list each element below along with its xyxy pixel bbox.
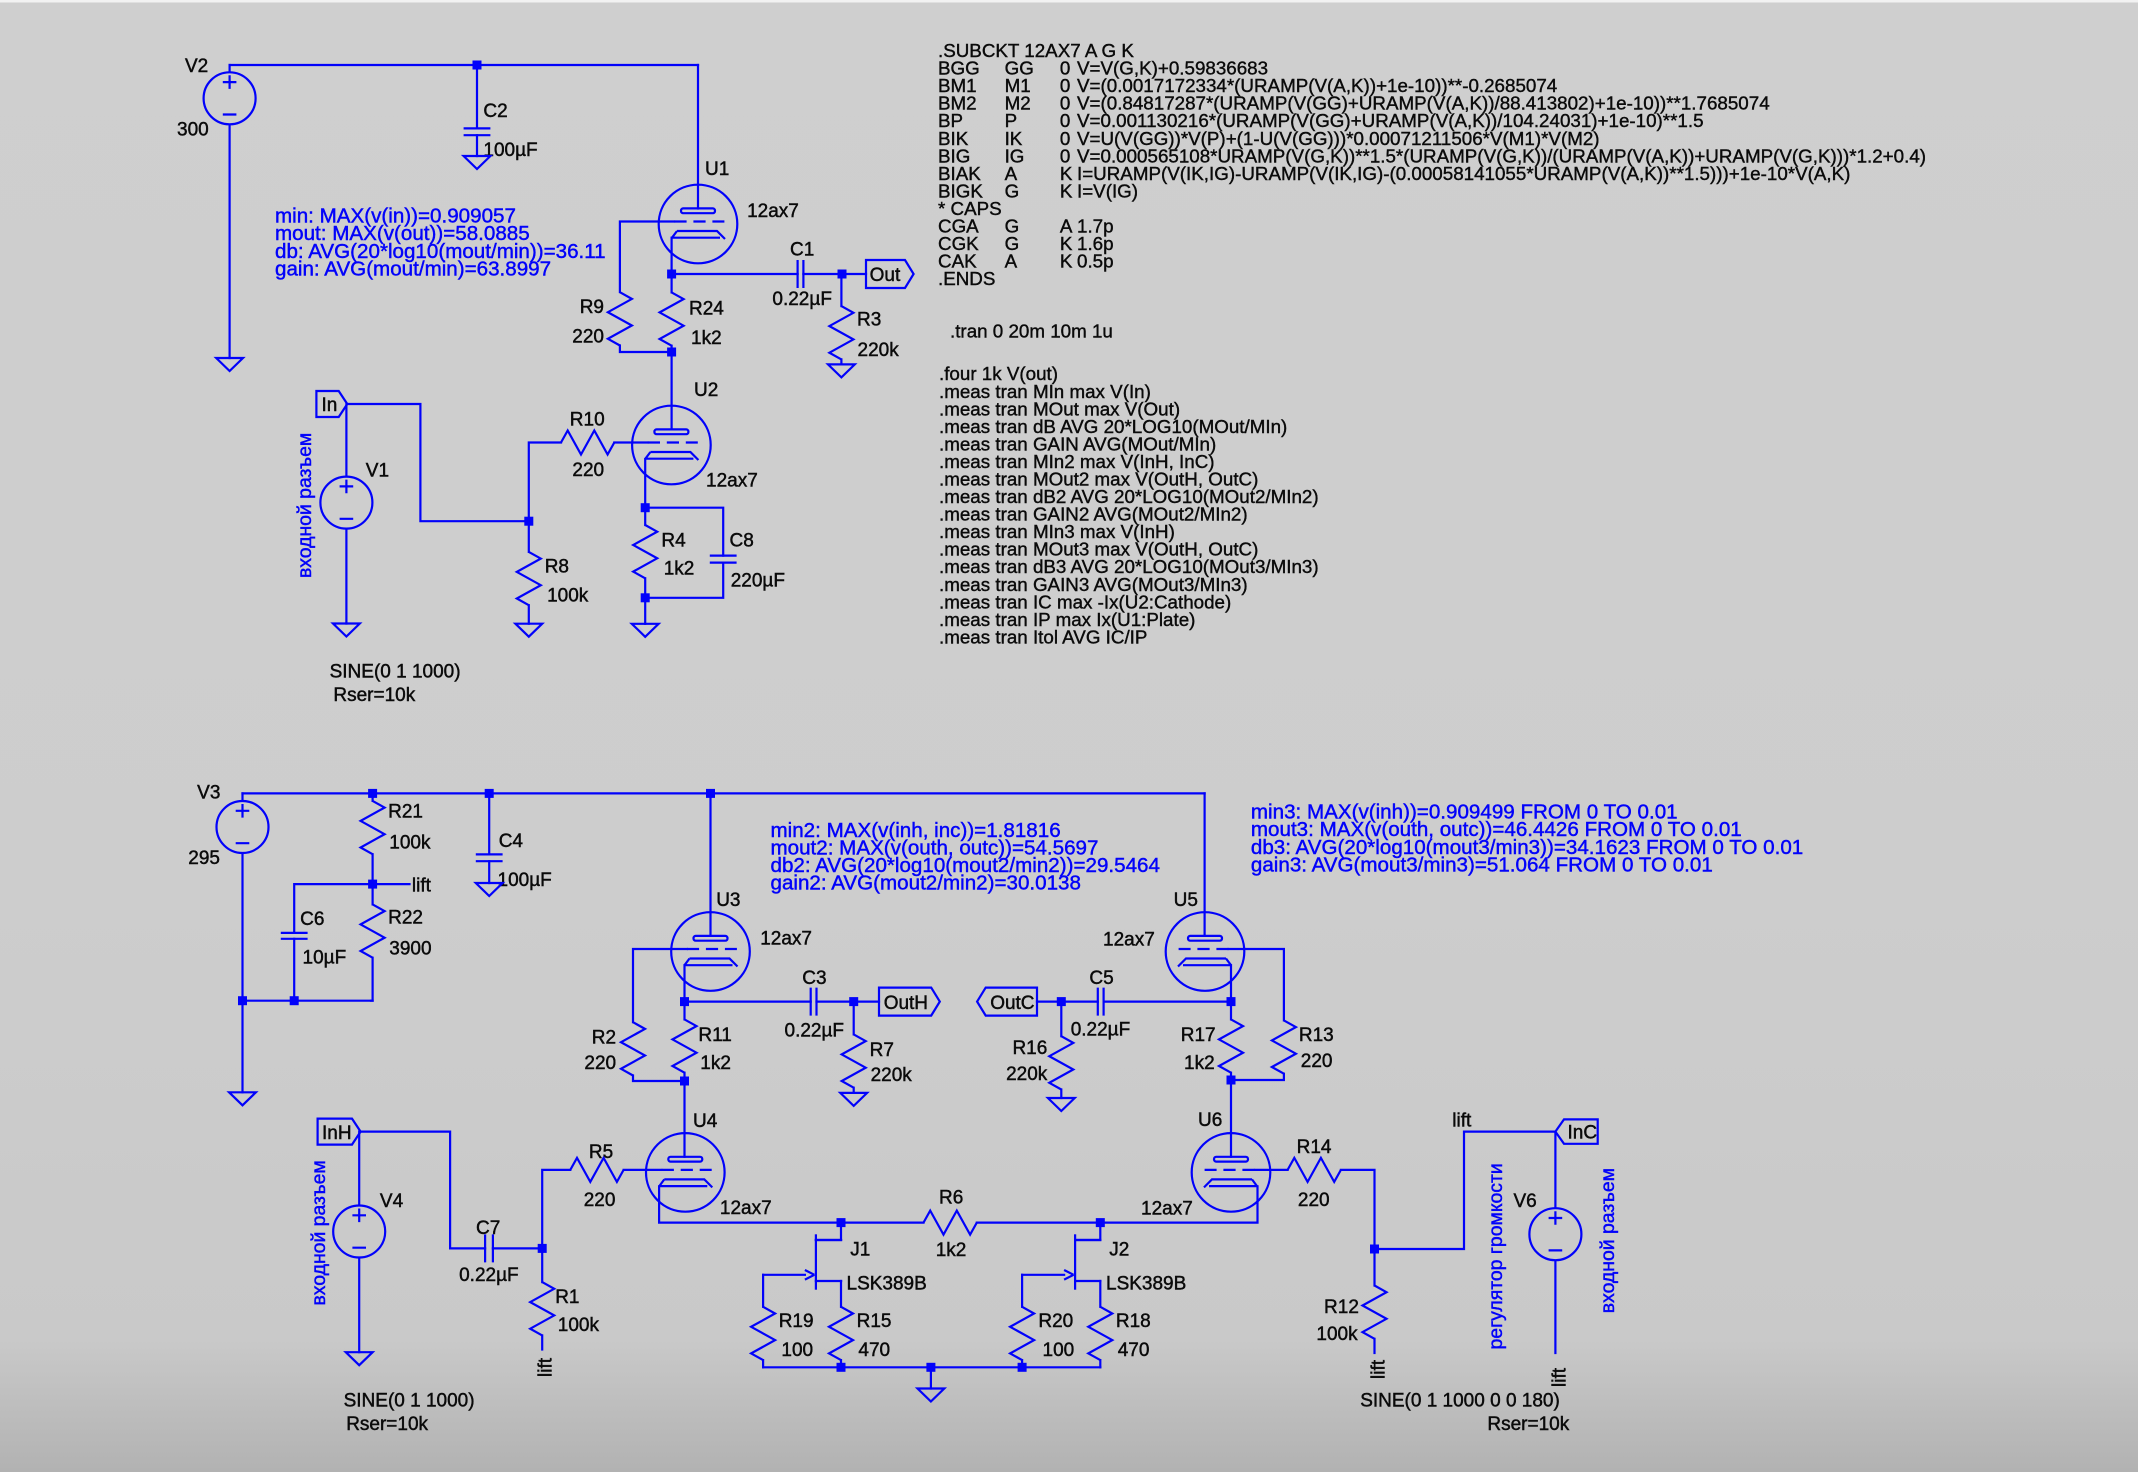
resistor R7 220k xyxy=(842,1002,913,1093)
wire node up to R10 xyxy=(529,443,561,522)
svg-text:C4: C4 xyxy=(499,831,524,852)
svg-text:InH: InH xyxy=(322,1123,352,1144)
wire node up to R5 xyxy=(542,1170,570,1249)
svg-text:U6: U6 xyxy=(1198,1110,1222,1131)
svg-text:входной разъем: входной разъем xyxy=(1597,1168,1619,1313)
svg-text:V3: V3 xyxy=(197,783,220,804)
svg-text:220k: 220k xyxy=(871,1065,913,1086)
wire U5 cathode to node xyxy=(1230,965,1232,1001)
svg-text:R5: R5 xyxy=(589,1142,613,1163)
port flag In xyxy=(316,391,347,417)
svg-text:1k2: 1k2 xyxy=(936,1240,967,1261)
svg-text:InC: InC xyxy=(1568,1123,1598,1144)
wire U6 cathode bus xyxy=(1100,1186,1257,1222)
wire node to U6 plate xyxy=(1230,1080,1232,1157)
svg-text:U2: U2 xyxy=(694,380,718,401)
text measurement results block 1 xyxy=(275,204,606,280)
wire R13 bottom to node xyxy=(1231,1074,1284,1080)
svg-text:gain: AVG(mout/min)=63.8997: gain: AVG(mout/min)=63.8997 xyxy=(275,258,551,281)
svg-text:470: 470 xyxy=(858,1340,890,1361)
port flag Out xyxy=(866,260,914,288)
port flag OutH xyxy=(879,988,940,1016)
wire node to U2 plate xyxy=(670,352,672,429)
resistor R10 220 xyxy=(561,410,614,481)
svg-text:12ax7: 12ax7 xyxy=(720,1198,772,1219)
wire V6 to lift label xyxy=(1554,1261,1556,1353)
resistor R8 100k xyxy=(517,521,589,624)
svg-text:R7: R7 xyxy=(870,1040,894,1061)
wire to V3 ground xyxy=(241,1001,243,1093)
svg-text:R15: R15 xyxy=(857,1311,892,1332)
capacitor C4 100uF xyxy=(476,793,552,891)
port flag InH xyxy=(318,1119,361,1145)
ground R16 xyxy=(1048,1098,1075,1111)
wire V4 to ground xyxy=(358,1258,360,1352)
svg-text:100µF: 100µF xyxy=(498,870,552,891)
capacitor C8 220uF xyxy=(645,508,785,598)
svg-text:0.22µF: 0.22µF xyxy=(772,289,832,310)
triode U3 12ax7 xyxy=(671,890,812,991)
svg-text:300: 300 xyxy=(177,119,209,140)
svg-text:LSK389B: LSK389B xyxy=(1106,1274,1186,1295)
voltage source V4 xyxy=(333,1191,474,1435)
triode U4 12ax7 xyxy=(646,1111,772,1219)
junction U2 cathode/R4/C8 xyxy=(641,503,650,512)
svg-text:lift: lift xyxy=(536,1357,557,1377)
svg-text:R9: R9 xyxy=(580,297,604,318)
wire R10 to U2 grid xyxy=(614,441,647,443)
resistor R9 220 xyxy=(572,292,632,348)
junction C2/rail xyxy=(473,61,482,70)
svg-text:R21: R21 xyxy=(388,802,423,823)
svg-text:1k2: 1k2 xyxy=(700,1053,731,1074)
resistor R15 470 xyxy=(829,1307,891,1368)
svg-text:входной разъем: входной разъем xyxy=(308,1160,330,1305)
svg-text:.ENDS: .ENDS xyxy=(938,268,995,289)
svg-text:R3: R3 xyxy=(857,310,881,331)
svg-text:1k2: 1k2 xyxy=(691,328,722,349)
svg-text:220: 220 xyxy=(584,1053,616,1074)
capacitor C2 xyxy=(464,65,538,161)
resistor R21 100k xyxy=(361,793,431,884)
svg-text:R4: R4 xyxy=(661,530,686,551)
junction V3/C6 return xyxy=(238,996,247,1005)
ground V3 xyxy=(229,1092,256,1105)
wire C7 to node xyxy=(493,1247,542,1249)
triode U2 12ax7 xyxy=(632,380,758,492)
svg-text:0.22µF: 0.22µF xyxy=(459,1265,519,1286)
ground R8 xyxy=(515,624,542,637)
junction R14/R12/lift net xyxy=(1370,1245,1379,1254)
svg-text:100: 100 xyxy=(781,1340,813,1361)
ground R3 xyxy=(828,364,855,377)
svg-text:10µF: 10µF xyxy=(303,947,347,968)
wire U1 cathode to node xyxy=(670,238,672,274)
junction J2 drain/R6 xyxy=(1096,1218,1105,1227)
svg-text:V1: V1 xyxy=(366,460,389,481)
text .SUBCKT 12AX7 model block xyxy=(938,40,1926,289)
svg-text:SINE(0 1 1000): SINE(0 1 1000) xyxy=(330,662,461,683)
junction U3 plate/rail xyxy=(706,789,715,798)
capacitor C5 0.22uF xyxy=(1071,968,1131,1041)
resistor R6 1k2 xyxy=(841,1188,1100,1261)
svg-text:C2: C2 xyxy=(483,101,507,122)
svg-text:470: 470 xyxy=(1118,1340,1150,1361)
svg-text:100: 100 xyxy=(1043,1340,1075,1361)
svg-text:0.22µF: 0.22µF xyxy=(1071,1020,1131,1041)
wire C5 to OutC port xyxy=(1037,1000,1098,1002)
wire C3 to OutH port xyxy=(817,1000,880,1002)
resistor R12 100k xyxy=(1316,1249,1386,1353)
wire rail to ground xyxy=(930,1367,932,1388)
svg-text:100k: 100k xyxy=(1316,1324,1358,1345)
svg-text:U5: U5 xyxy=(1174,890,1198,911)
svg-text:OutC: OutC xyxy=(990,993,1034,1014)
resistor R18 470 xyxy=(1088,1307,1150,1368)
wire out net to C1 xyxy=(672,273,798,275)
ground C2 xyxy=(464,156,491,169)
svg-text:100k: 100k xyxy=(547,585,589,606)
svg-text:1k2: 1k2 xyxy=(664,559,695,580)
svg-text:lift: lift xyxy=(412,875,432,896)
wire rail to U3 plate xyxy=(709,793,711,936)
wire source return rail xyxy=(763,1366,1100,1368)
resistor R2 220 xyxy=(584,1022,645,1075)
JFET J2 LSK389B xyxy=(1064,1223,1186,1307)
svg-text:OutH: OutH xyxy=(884,993,928,1014)
wire U1 grid to R9 xyxy=(620,222,674,293)
wire V3 to bottom node xyxy=(241,854,243,1001)
svg-text:U1: U1 xyxy=(705,159,729,180)
svg-text:Rser=10k: Rser=10k xyxy=(346,1414,428,1435)
svg-text:SINE(0 1 1000 0 0 180): SINE(0 1 1000 0 0 180) xyxy=(1360,1391,1560,1412)
svg-text:LSK389B: LSK389B xyxy=(847,1274,927,1295)
ground R4 xyxy=(632,624,659,637)
junction R24/R9/U2 plate xyxy=(667,348,676,357)
svg-text:100k: 100k xyxy=(389,833,431,854)
junction R17/R13/U6 plate xyxy=(1227,1076,1236,1085)
svg-text:220: 220 xyxy=(1298,1190,1330,1211)
wire V1 to ground xyxy=(345,529,347,623)
svg-text:220µF: 220µF xyxy=(731,571,785,592)
junction R3/out xyxy=(838,270,847,279)
svg-text:R10: R10 xyxy=(570,410,605,431)
svg-text:lift: lift xyxy=(1549,1367,1570,1387)
wire InH net to C7 xyxy=(361,1132,485,1249)
svg-text:0.22µF: 0.22µF xyxy=(785,1020,845,1041)
resistor R20 100 xyxy=(1010,1275,1074,1368)
svg-text:R6: R6 xyxy=(939,1188,963,1209)
wire return bus xyxy=(243,1000,373,1002)
resistor R11 1k2 xyxy=(673,1002,732,1081)
ground source rail xyxy=(918,1389,945,1402)
resistor R14 220 xyxy=(1288,1137,1341,1211)
svg-text:R17: R17 xyxy=(1181,1025,1216,1046)
svg-text:12ax7: 12ax7 xyxy=(747,201,799,222)
resistor R17 1k2 xyxy=(1181,1002,1243,1080)
svg-text:lift: lift xyxy=(1369,1359,1390,1379)
svg-text:3900: 3900 xyxy=(389,938,431,959)
wire U6 grid to R14 xyxy=(1255,1169,1288,1171)
wire C1 to Out port xyxy=(803,273,866,275)
svg-text:295: 295 xyxy=(188,848,220,869)
junction U5 cathode/outC net xyxy=(1227,997,1236,1006)
wire node to U4 plate xyxy=(683,1081,685,1157)
junction In net/R8/R10 xyxy=(524,517,533,526)
junction U3 cathode/outH net xyxy=(680,997,689,1006)
svg-text:100µF: 100µF xyxy=(483,140,537,161)
triode U5 12ax7 xyxy=(1103,890,1244,991)
svg-text:R22: R22 xyxy=(388,907,423,928)
wire V2 to ground xyxy=(229,125,231,358)
svg-text:регулятор громкости: регулятор громкости xyxy=(1485,1163,1507,1349)
svg-text:220k: 220k xyxy=(1006,1064,1048,1085)
wire R9 bottom to node xyxy=(620,346,672,353)
svg-text:U3: U3 xyxy=(716,890,740,911)
svg-text:220k: 220k xyxy=(858,340,900,361)
svg-text:R2: R2 xyxy=(592,1028,616,1049)
svg-text:220: 220 xyxy=(572,460,604,481)
triode U1 12ax7 xyxy=(659,159,799,263)
triode U6 12ax7 xyxy=(1141,1110,1270,1220)
svg-text:входной разъем: входной разъем xyxy=(294,433,316,578)
svg-text:Rser=10k: Rser=10k xyxy=(333,685,415,706)
svg-text:R12: R12 xyxy=(1324,1297,1359,1318)
wire top rail V+ (300V) xyxy=(230,64,698,66)
wire InC port to V6 xyxy=(1554,1132,1556,1208)
ground V4 xyxy=(346,1352,373,1365)
wire bottom rail V+ (295V) xyxy=(243,792,1205,794)
svg-text:12ax7: 12ax7 xyxy=(1103,930,1155,951)
wire U5 grid to R13 xyxy=(1229,949,1284,1020)
JFET J1 LSK389B xyxy=(805,1223,927,1307)
capacitor C7 0.22uF xyxy=(459,1218,519,1286)
svg-text:C3: C3 xyxy=(802,968,826,989)
voltage source V6 xyxy=(1360,1191,1581,1435)
svg-text:C6: C6 xyxy=(300,909,324,930)
svg-text:12ax7: 12ax7 xyxy=(706,471,758,492)
voltage source V2 xyxy=(177,56,256,140)
svg-text:220: 220 xyxy=(584,1190,616,1211)
resistor R4 1k2 xyxy=(633,508,694,598)
wire node to ground xyxy=(644,598,646,624)
svg-text:gain3: AVG(mout3/min3)=51.064: gain3: AVG(mout3/min3)=51.064 FROM 0 TO … xyxy=(1251,853,1713,876)
svg-text:J2: J2 xyxy=(1109,1239,1129,1260)
svg-text:.tran 0 20m 10m 1u: .tran 0 20m 10m 1u xyxy=(950,320,1113,341)
svg-text:R13: R13 xyxy=(1299,1025,1334,1046)
text measurement results block 3 xyxy=(1251,801,1803,877)
svg-text:R18: R18 xyxy=(1116,1311,1151,1332)
svg-text:R20: R20 xyxy=(1038,1311,1073,1332)
window top edge xyxy=(0,0,2138,3)
svg-text:220: 220 xyxy=(572,327,604,348)
wire U4 cathode bus xyxy=(659,1186,841,1222)
junction lift node xyxy=(368,880,377,889)
junction R21/rail xyxy=(368,789,377,798)
svg-text:SINE(0 1 1000): SINE(0 1 1000) xyxy=(344,1391,475,1412)
wire In net to R8/R10 node xyxy=(347,404,529,521)
wire U2 cathode to node xyxy=(644,459,646,508)
ground C4 xyxy=(476,883,503,896)
junction R16/outC xyxy=(1057,997,1066,1006)
svg-text:Out: Out xyxy=(870,265,901,286)
svg-text:lift: lift xyxy=(1452,1111,1472,1132)
resistor R19 100 xyxy=(751,1275,813,1368)
text measurement results block 2 xyxy=(771,819,1160,895)
svg-text:C7: C7 xyxy=(476,1218,500,1239)
wire In port to V1 xyxy=(345,404,347,476)
svg-text:V4: V4 xyxy=(380,1191,404,1212)
resistor R16 220k xyxy=(1006,1002,1073,1098)
text .four/.meas directives block xyxy=(939,363,1319,647)
svg-text:100k: 100k xyxy=(558,1315,600,1336)
svg-text:12ax7: 12ax7 xyxy=(760,929,812,950)
junction R4/C8 bottom xyxy=(641,593,650,602)
junction U1 cathode / out net xyxy=(667,270,676,279)
svg-text:In: In xyxy=(322,395,338,416)
port flag InC xyxy=(1555,1119,1597,1143)
wire U3 grid to R2 xyxy=(633,949,687,1022)
voltage source V1 xyxy=(320,460,460,706)
wire rail to U5 plate xyxy=(1203,793,1205,936)
svg-text:R14: R14 xyxy=(1297,1137,1332,1158)
junction R20/rail xyxy=(1018,1363,1027,1372)
svg-text:R11: R11 xyxy=(698,1025,731,1046)
junction R11/R2/U4 plate xyxy=(680,1077,689,1086)
svg-text:220: 220 xyxy=(1301,1051,1333,1072)
resistor R24 1k2 xyxy=(660,274,725,352)
wire V2 top stub xyxy=(229,65,231,72)
svg-text:R1: R1 xyxy=(555,1287,579,1308)
svg-text:C5: C5 xyxy=(1089,968,1113,989)
wire lift stub xyxy=(373,883,410,885)
svg-text:V6: V6 xyxy=(1513,1191,1536,1212)
wire InH port to V4 xyxy=(358,1132,360,1205)
ground R7 xyxy=(840,1093,867,1106)
wire R2 bottom to node xyxy=(633,1076,685,1082)
svg-text:1k2: 1k2 xyxy=(1184,1053,1215,1074)
resistor R22 3900 xyxy=(361,884,432,1001)
ground V2 xyxy=(216,358,243,371)
svg-text:U4: U4 xyxy=(693,1111,718,1132)
wire J1 gate to R19 xyxy=(763,1274,805,1276)
wire R14 to node xyxy=(1341,1170,1375,1249)
wire V3 top stub xyxy=(241,793,243,800)
svg-text:R19: R19 xyxy=(779,1311,814,1332)
junction C6 return xyxy=(290,996,299,1005)
svg-text:Rser=10k: Rser=10k xyxy=(1487,1414,1569,1435)
svg-text:.meas tran Itol AVG IC/IP: .meas tran Itol AVG IC/IP xyxy=(939,626,1147,647)
ground V1 xyxy=(333,624,360,637)
resistor R13 220 xyxy=(1272,1020,1334,1073)
wire outH net to C3 xyxy=(685,1000,811,1002)
resistor R3 220k xyxy=(829,274,899,364)
junction C7/R1/R5 xyxy=(538,1244,547,1253)
wire outC net to C5 xyxy=(1104,1000,1231,1002)
junction ground/rail xyxy=(926,1363,935,1372)
junction R15/rail xyxy=(837,1363,846,1372)
wire lift net to InC xyxy=(1375,1132,1556,1249)
port flag OutC xyxy=(977,988,1037,1016)
resistor R5 220 xyxy=(570,1142,623,1211)
junction J1 drain/R6 xyxy=(837,1218,846,1227)
svg-text:BIAKAKI=URAMP(V(IK,IG)-URAMP(V: BIAKAKI=URAMP(V(IK,IG)-URAMP(V(IK,IG)-(0… xyxy=(938,163,1850,184)
wire U3 cathode to node xyxy=(683,965,685,1001)
wire R5 to U4 grid xyxy=(624,1169,662,1171)
wire J2 gate to R20 xyxy=(1022,1274,1064,1276)
svg-text:R24: R24 xyxy=(689,299,724,320)
junction R7/outH xyxy=(849,997,858,1006)
svg-text:V2: V2 xyxy=(185,56,208,77)
svg-text:12ax7: 12ax7 xyxy=(1141,1199,1193,1220)
svg-text:R16: R16 xyxy=(1012,1038,1047,1059)
svg-text:gain2: AVG(mout2/min2)=30.0138: gain2: AVG(mout2/min2)=30.0138 xyxy=(771,872,1081,895)
svg-text:R8: R8 xyxy=(545,556,569,577)
resistor R1 100k xyxy=(530,1248,599,1349)
capacitor C3 0.22uF xyxy=(785,968,845,1041)
junction C4/rail xyxy=(485,789,494,798)
capacitor C1 0.22uF xyxy=(772,240,832,311)
voltage source V3 xyxy=(188,783,268,869)
capacitor C6 10uF xyxy=(281,884,373,1001)
svg-text:J1: J1 xyxy=(850,1239,870,1260)
svg-text:C8: C8 xyxy=(730,530,754,551)
wire rail to U1 plate xyxy=(697,65,699,209)
svg-text:C1: C1 xyxy=(790,240,814,261)
